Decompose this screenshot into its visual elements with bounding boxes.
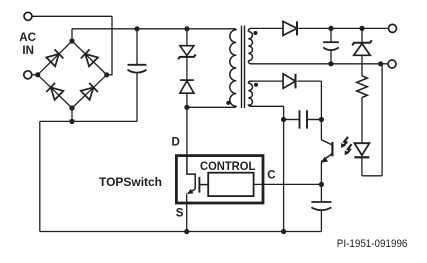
svg-text:TOPSwitch: TOPSwitch — [99, 175, 162, 189]
svg-text:AC: AC — [19, 32, 36, 44]
svg-text:C: C — [267, 169, 275, 181]
svg-text:PI-1951-091996: PI-1951-091996 — [337, 238, 408, 250]
svg-text:S: S — [176, 208, 184, 220]
svg-text:CONTROL: CONTROL — [200, 159, 255, 173]
svg-text:IN: IN — [22, 45, 34, 57]
svg-text:D: D — [172, 137, 180, 149]
